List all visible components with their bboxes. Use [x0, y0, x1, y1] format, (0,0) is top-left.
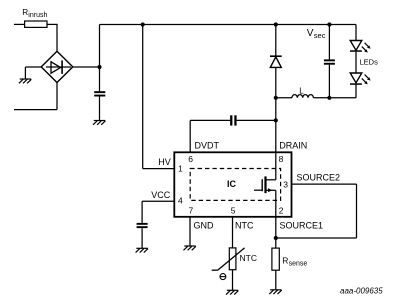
svg-text:2: 2 [279, 205, 284, 215]
svg-text:1: 1 [178, 163, 183, 173]
svg-text:3: 3 [283, 179, 288, 189]
svg-text:V: V [307, 28, 314, 39]
svg-text:GND: GND [194, 220, 215, 230]
svg-text:R: R [282, 256, 288, 266]
svg-text:SOURCE2: SOURCE2 [297, 172, 341, 182]
svg-text:aaa-009635: aaa-009635 [340, 287, 383, 296]
svg-text:LEDs: LEDs [360, 58, 379, 67]
svg-text:VCC: VCC [151, 190, 171, 200]
svg-text:DVDT: DVDT [195, 140, 220, 150]
svg-text:6: 6 [188, 154, 193, 164]
svg-text:HV: HV [158, 157, 171, 167]
svg-text:IC: IC [227, 179, 237, 189]
svg-text:5: 5 [231, 205, 236, 215]
svg-text:SOURCE1: SOURCE1 [280, 220, 324, 230]
svg-text:L: L [299, 87, 304, 96]
svg-text:DRAIN: DRAIN [279, 140, 307, 150]
svg-text:4: 4 [178, 195, 183, 205]
svg-text:7: 7 [189, 205, 194, 215]
svg-text:NTC: NTC [240, 253, 257, 263]
svg-text:sense: sense [289, 260, 308, 267]
svg-text:8: 8 [279, 154, 284, 164]
svg-text:sec: sec [314, 31, 326, 40]
svg-text:inrush: inrush [28, 12, 47, 19]
svg-text:NTC: NTC [235, 220, 254, 230]
